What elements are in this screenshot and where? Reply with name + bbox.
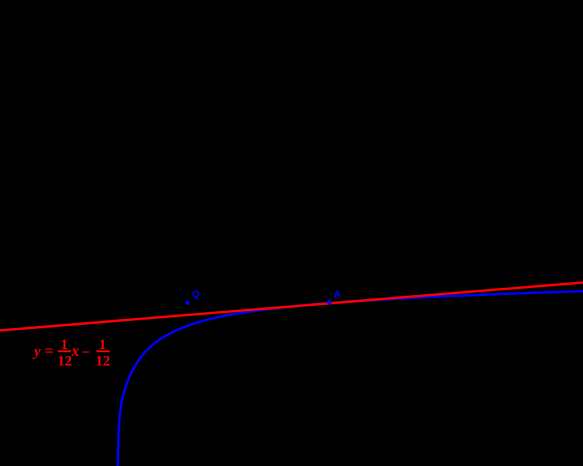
svg-text:12: 12	[58, 354, 73, 370]
svg-text:12: 12	[96, 354, 111, 370]
svg-text:y: y	[32, 344, 41, 360]
svg-text:x: x	[71, 343, 80, 360]
svg-text:A: A	[334, 290, 341, 301]
svg-text:−: −	[81, 345, 90, 361]
svg-text:=: =	[45, 343, 54, 360]
svg-text:Q: Q	[192, 290, 200, 301]
